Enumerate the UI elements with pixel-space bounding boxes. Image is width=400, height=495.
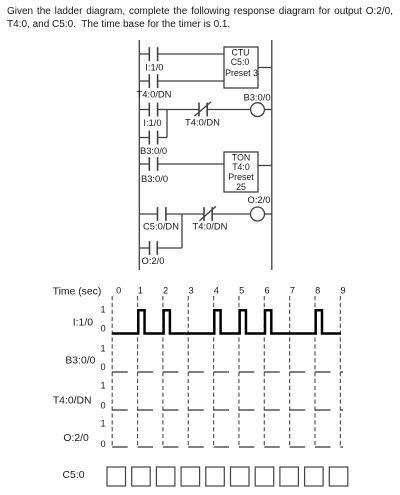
B3:0/0 level labels 1 0 bbox=[100, 343, 105, 372]
svg-text:8: 8 bbox=[315, 285, 320, 295]
question text line 1 bbox=[7, 5, 393, 18]
svg-text:0: 0 bbox=[100, 323, 105, 333]
svg-text:O:2/0: O:2/0 bbox=[142, 255, 165, 266]
svg-text:2: 2 bbox=[163, 285, 168, 295]
svg-text:B3:0/0: B3:0/0 bbox=[140, 145, 167, 156]
svg-text:Preset: Preset bbox=[228, 172, 254, 182]
NC contact T4:0/DN rung4 bbox=[199, 206, 216, 221]
contact C5:0/DN rung4 bbox=[158, 207, 166, 221]
svg-text:CTU: CTU bbox=[231, 47, 249, 57]
left rail bbox=[138, 40, 140, 270]
O:2/0 response line dashed bbox=[112, 446, 343, 448]
svg-text:4: 4 bbox=[214, 285, 219, 295]
O:2/0 level labels 1 0 bbox=[100, 418, 105, 449]
svg-text:C5:0/DN: C5:0/DN bbox=[143, 221, 179, 232]
T4:0/DN level labels 1 0 bbox=[100, 380, 105, 410]
svg-text:Time (sec): Time (sec) bbox=[53, 287, 102, 298]
svg-text:O:2/0: O:2/0 bbox=[248, 194, 271, 205]
contact B3:0/0 rung3 bbox=[149, 157, 157, 171]
question text line 2 bbox=[7, 18, 230, 31]
svg-text:1: 1 bbox=[100, 304, 105, 314]
svg-text:T4:0/DN: T4:0/DN bbox=[137, 88, 172, 99]
C5:0 answer boxes bbox=[107, 467, 348, 486]
svg-text:1: 1 bbox=[100, 418, 105, 428]
svg-text:0: 0 bbox=[100, 400, 105, 410]
svg-text:1: 1 bbox=[138, 285, 143, 295]
svg-text:3: 3 bbox=[188, 285, 193, 295]
I:1/0 level labels 1 0 bbox=[100, 304, 105, 333]
time axis numbers 0-9 bbox=[116, 285, 346, 295]
wire rung2 seal-in branch bbox=[139, 110, 167, 138]
svg-text:I:1/0: I:1/0 bbox=[73, 317, 93, 328]
wire TON output bbox=[258, 165, 272, 167]
wire rung1 count input bbox=[139, 53, 224, 55]
svg-text:1: 1 bbox=[100, 380, 105, 390]
svg-text:T4:0/DN: T4:0/DN bbox=[193, 221, 228, 232]
svg-text:B3:0/0: B3:0/0 bbox=[243, 91, 270, 102]
svg-text:I:1/0: I:1/0 bbox=[143, 117, 161, 128]
contact B3:0/0 seal-in rung2 bbox=[149, 131, 157, 145]
wire CTU output bbox=[258, 67, 272, 69]
B3:0/0 response line dashed bbox=[112, 371, 343, 373]
svg-text:25: 25 bbox=[236, 182, 246, 192]
svg-text:5: 5 bbox=[239, 285, 244, 295]
svg-text:6: 6 bbox=[264, 285, 269, 295]
NC contact T4:0/DN rung2 bbox=[194, 102, 211, 117]
svg-text:B3:0/0: B3:0/0 bbox=[65, 355, 95, 366]
svg-text:7: 7 bbox=[290, 285, 295, 295]
svg-text:T4:0/DN: T4:0/DN bbox=[53, 396, 92, 407]
waveform I:1/0 bbox=[112, 310, 341, 333]
wire rung4 seal-in branch bbox=[139, 214, 182, 248]
svg-text:C5:0: C5:0 bbox=[231, 57, 250, 67]
contact I:1/0 rung1 bbox=[149, 47, 157, 61]
svg-text:1: 1 bbox=[100, 343, 105, 353]
coil O:2/0 bbox=[251, 207, 265, 221]
time gridlines dashed bbox=[112, 296, 340, 447]
wire rung4 bbox=[139, 213, 271, 215]
svg-text:0: 0 bbox=[100, 362, 105, 372]
wire rung3 bbox=[139, 163, 224, 165]
contact O:2/0 seal-in rung4 bbox=[150, 241, 158, 255]
svg-text:T4:0/DN: T4:0/DN bbox=[185, 117, 220, 128]
svg-text:0: 0 bbox=[116, 285, 121, 295]
counter box CTU C5:0 bbox=[224, 47, 258, 88]
svg-text:O:2/0: O:2/0 bbox=[63, 433, 89, 444]
contact I:1/0 rung2 bbox=[149, 103, 157, 117]
T4:0/DN response line dashed bbox=[112, 409, 343, 411]
contact T4:0/DN rung1 parallel bbox=[149, 74, 157, 88]
wire rung2 bbox=[139, 109, 271, 111]
svg-text:Preset 3: Preset 3 bbox=[225, 68, 258, 78]
svg-text:9: 9 bbox=[341, 285, 346, 295]
wire rung1 parallel branch bbox=[139, 80, 224, 82]
timer box TON T4:0 bbox=[224, 152, 258, 192]
svg-text:B3:0/0: B3:0/0 bbox=[141, 173, 168, 184]
svg-text:T4:0: T4:0 bbox=[232, 162, 250, 172]
coil B3:0/0 bbox=[251, 103, 265, 117]
right rail bbox=[271, 40, 273, 270]
svg-text:I:1/0: I:1/0 bbox=[145, 61, 163, 72]
svg-text:0: 0 bbox=[100, 439, 105, 449]
svg-text:C5:0: C5:0 bbox=[63, 470, 85, 481]
